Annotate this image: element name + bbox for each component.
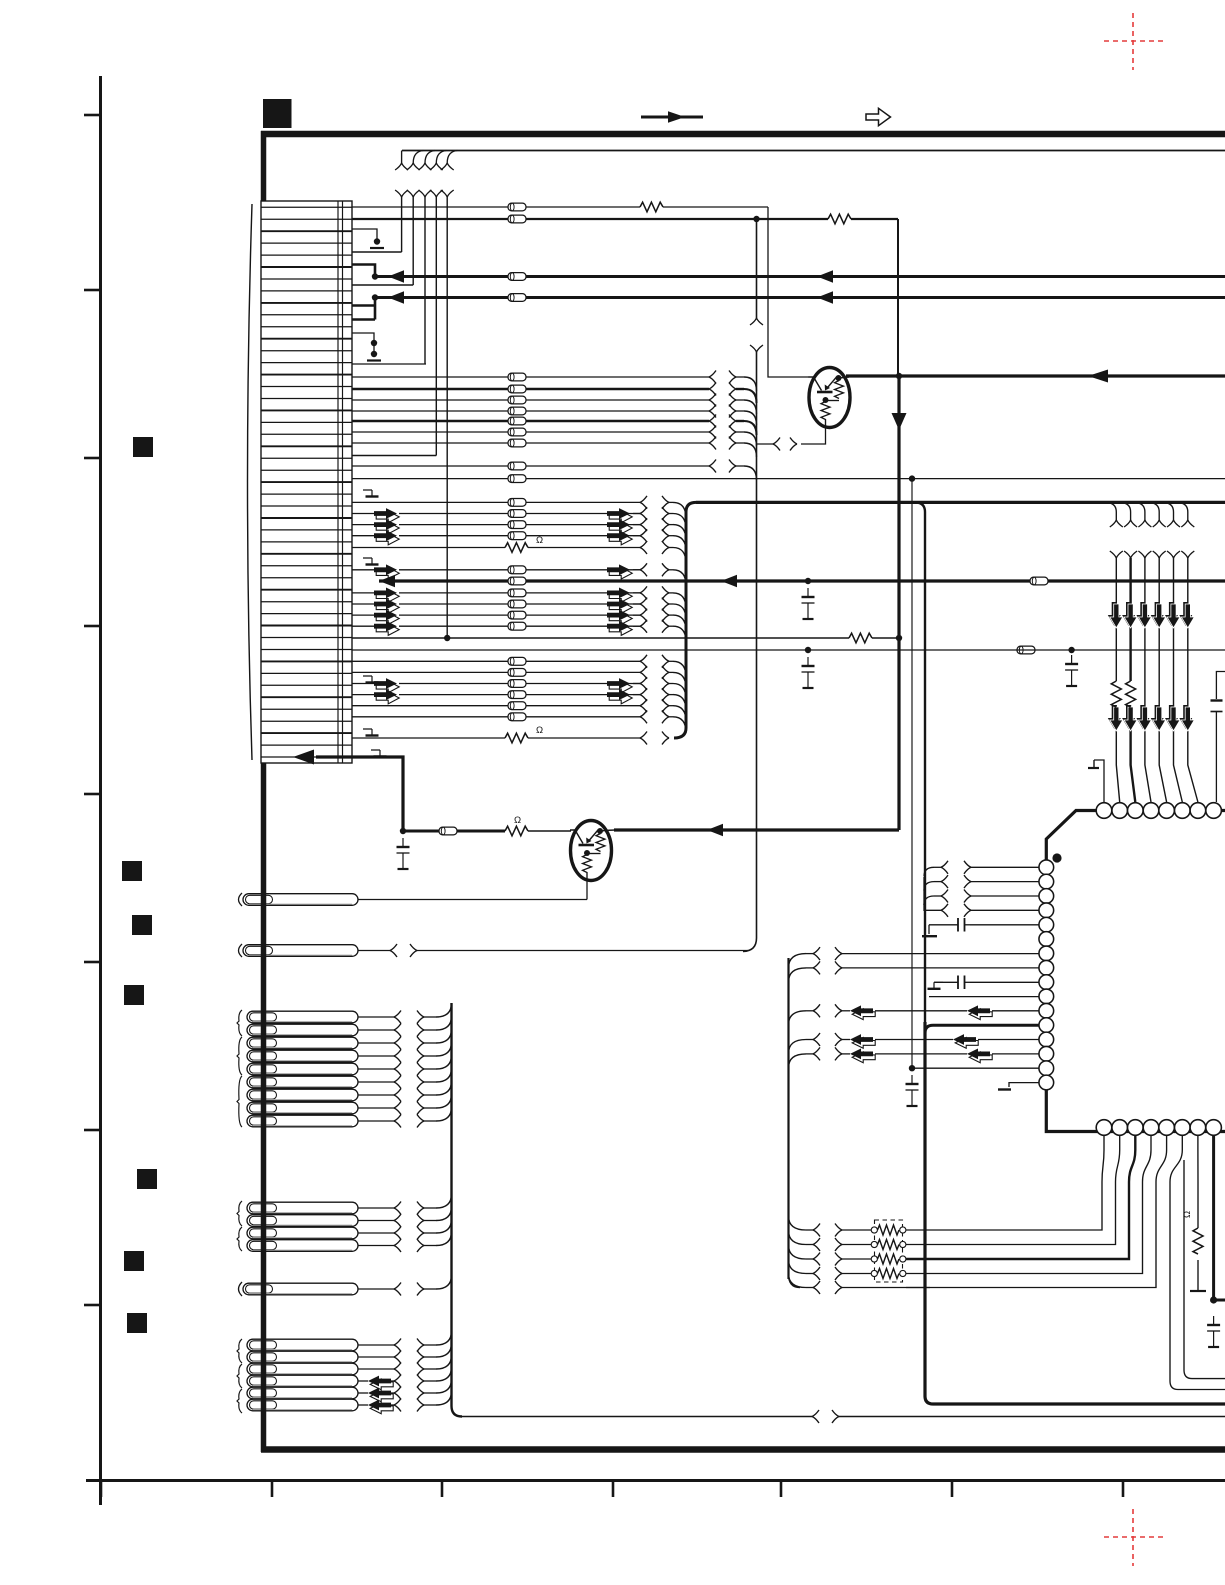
ground G20 [922,935,937,937]
wire row CLK long [352,637,849,639]
connector P3 pin pill 9 [247,1115,358,1127]
bus wire U101 top 2 [1131,558,1136,802]
bus wire U101 top 5 [1174,558,1183,802]
bus break fork P3-4 [394,1050,401,1063]
bus break fork B11 [640,655,647,668]
left margin marker square 3 [132,915,152,935]
wire U101 Lpin3 [934,895,941,897]
bus wire stair 2 [352,197,413,285]
wire U101 bottom pin1 [906,1135,1104,1230]
wire ctrl row B3 [352,524,374,526]
inner horizontal rail top [402,150,1225,152]
ruler left tick 4 [84,625,100,628]
ferrite bead A5 [508,417,526,425]
ferrite bead B1 [508,499,526,507]
flow arrow B3 left [374,519,399,534]
ruler left vertical line [99,76,102,1505]
connector group P3 brace c [237,1076,242,1127]
capacitor C23 [906,1075,919,1106]
ferrite bead B13 [508,680,526,688]
ferrite bead B2 [508,510,526,518]
bus break fork Lpin14 [813,1047,820,1060]
left margin marker square 5 [137,1169,157,1189]
ruler left tick 5 [84,793,100,796]
connector CN101 divider lines [338,201,343,763]
wire P3-4 [358,1055,394,1057]
bus vertical v912 [911,479,913,1070]
wire P6-1 [358,1344,394,1346]
wire Q1 emitter bottom [801,427,826,444]
bus break fork B3 [640,518,647,531]
connector CN101 pin rows [261,207,352,757]
ferrite bead DATA [508,577,526,585]
connector P5 (single pill) [243,1283,358,1295]
wire data row A3 [352,399,508,401]
wire bus row MUTE2 thick [375,296,1225,299]
ferrite bead A3 [508,396,526,404]
bus break fork B16 [640,710,647,723]
wire ctrl row B9 [352,614,374,616]
ferrite bead VREF right [1017,646,1035,654]
junction y376 [896,373,902,379]
wire RN1 row 2 left [842,1244,871,1246]
junction DATA cap [805,578,811,584]
wire P3-8 [358,1107,394,1109]
bus wire U101 top 1 [1116,558,1119,802]
wire data row A5 [352,420,508,422]
bus break fork B12 [640,666,647,679]
wire P3-7 [358,1094,394,1096]
ruler bottom horizontal line [86,1479,1225,1482]
flow arrow B10 right [607,621,632,636]
flow arrow P6-5 [368,1388,393,1402]
svg-text:Ω: Ω [536,725,543,736]
wire P3-9 [358,1120,394,1122]
connector P6 pin pill 4 [247,1375,358,1387]
junction VREF cap [805,647,811,653]
flow arrow B13 right [607,678,632,693]
left margin marker square 4 [124,985,144,1005]
bus break fork A4 [709,405,716,418]
wire bus row DATA thick [379,579,1225,582]
bus break fork P6-3 [394,1363,401,1376]
arrowhead MUTE2 mid [817,291,833,304]
ferrite bead A6 [508,428,526,436]
ruler left tick 8 [84,1304,100,1307]
wire U101 Lpin2 [934,881,941,883]
wire P5 [358,1288,394,1290]
wire ctrl row B14 [352,694,374,696]
connector P6 pin pill 2 [247,1351,358,1363]
schematic border left [261,131,267,1452]
ferrite bead B14 [508,691,526,699]
ground sym G1 [363,490,379,497]
ground sym G3 [363,676,379,683]
junction pin8 [1210,1296,1217,1303]
bus break fork B8 [640,598,647,611]
resistor R12 [828,214,851,224]
wire U101 Lpin15 [912,1067,1039,1069]
wire U101 Lpin13 [842,1039,850,1041]
transistor Q1 [809,368,851,428]
flow arrow B2 left [374,508,399,523]
flow arrow B4 right [607,530,632,545]
connector P4 pin pill 2 [247,1215,358,1227]
connector P4 brace b [237,1227,242,1251]
node stub pair [352,333,426,364]
svg-text:Ω: Ω [536,535,543,546]
bus break fork B9 [640,609,647,622]
wire row SCL thick [352,218,508,220]
connector P6 brace b [237,1364,242,1388]
ferrite bead L5 [439,827,457,835]
wire row SDA [352,206,508,208]
bus break fork U1-8 [813,961,820,974]
wire Q1 to v756 [757,443,774,445]
wire P4-2 [358,1220,394,1222]
bus break fork B4 [640,529,647,542]
bus break fork P6-2 [394,1351,401,1364]
connector P6 brace a [237,1339,242,1363]
bus break fork P3-5 [394,1063,401,1076]
left margin marker square 1 [133,437,153,457]
connector P2 bracket [239,944,243,957]
flow arrow B4 left [374,530,399,545]
IC U101 top pin circles [1096,803,1221,819]
resistor R22 [505,826,528,836]
wire P6-4 [358,1380,368,1382]
ferrite bead A2 [508,385,526,393]
wire P6-3 [358,1368,394,1370]
wire P3-3 [358,1042,394,1044]
registration cross bottom-right [1104,1536,1163,1538]
bus entry curl end forks [395,163,408,170]
bus break y1416 [812,1410,819,1423]
bus wire stair 4 [352,197,436,456]
resistor R11 [640,202,663,212]
flow arrow B10 left [374,621,399,636]
wire thick y376 from right [846,374,1225,377]
connector P6 pin pill 3 [247,1363,358,1375]
ruler bottom tick 2 [271,1481,274,1497]
bold down arrows row1 [1108,602,1123,628]
flow arrow B7 left [374,588,399,603]
wire RN1 row 3 left [842,1258,871,1260]
IC U101 bottom pin circles [1096,1120,1221,1136]
bus break on v756 [750,318,763,325]
ruler left tick 1 [84,114,100,117]
ferrite bead DATA right [1030,577,1048,585]
bus break fork A1 [709,371,716,384]
flow arrow B6 left [374,564,399,579]
wire P1 to Q2 [358,899,587,901]
capacitor C12 [1065,655,1078,686]
wire data row A6 [352,431,508,433]
wire P2 segment [358,950,390,952]
schematic border top [261,131,1225,138]
connector CN101 pin rows bold [261,231,352,733]
bus break fork B2 [640,507,647,520]
bus break fork B6 [640,563,647,576]
bus break fork RN1-3 [813,1253,820,1266]
connector P6 pin pill 6 [247,1399,358,1411]
bus curl end forks [1110,520,1123,527]
ferrite bead B6 [508,566,526,574]
bus wire stair 5 [446,197,448,638]
wire RN1 row 4 left [842,1273,871,1275]
left margin marker square 6 [124,1251,144,1271]
bus vertical v756 [743,222,757,952]
bus break fork B1 [640,496,647,509]
bus break fork P6-5 [394,1387,401,1400]
arrowhead y376 [1088,370,1108,383]
bus break fork P4-1 [394,1202,401,1215]
connector P4 pin pill 3 [247,1227,358,1239]
connector P6 pin pill 1 [247,1339,358,1351]
connector P2 (single pill) [243,945,358,957]
connector P4 brace a [237,1201,242,1226]
arrowhead y830 [707,824,723,837]
wire data row A2 [352,388,508,390]
wire ctrl row B1 [352,501,508,503]
net tie bar B [370,247,384,249]
hollow arrow Lpin13 a [850,1034,875,1048]
ground sym G2 [363,558,379,565]
bus break fork B7 [640,586,647,599]
bus thick horizontal y502 [696,501,1225,504]
wire P3-2 [358,1029,394,1031]
connector P6 pin pill 5 [247,1387,358,1399]
connector P4 pin pill 4 [247,1240,358,1252]
wire ctrl row B16 [352,716,508,718]
bus break fork P3-8 [394,1102,401,1115]
wire Q2 emitter [586,880,588,900]
wire bus row MUTE1 thick [375,275,1225,278]
wire U101 bottom pin6b [1184,1160,1225,1379]
wire U101 bottom pin2 [906,1135,1120,1245]
connector group P3 brace b [237,1037,242,1075]
wire thick to P-line [316,757,403,831]
connector P3 pin pill 7 [247,1089,358,1101]
wire P4-1 [358,1207,394,1209]
wire V drop to Q1 base [768,207,809,377]
capacitor C14 [397,838,410,869]
ferrite bead A7 [508,439,526,447]
bus wire U101 top 4 [1159,558,1166,802]
connector CN101 left bracket [248,204,253,760]
ground G22 [928,982,944,989]
wire U101 Lpin11 [842,1010,850,1012]
left margin marker square 2 [122,861,142,881]
wire stub row3 [352,229,377,240]
ruler bottom tick 3 [441,1481,444,1497]
wire U101 Lpin12 thick [925,1025,1039,1033]
junction stair wire 5 [444,635,450,641]
IC U101 left pin circles [1039,860,1054,1090]
bus corner to v927 [915,502,925,1022]
flow arrow B6 right [607,564,632,579]
bus break fork P6-6 [394,1399,401,1412]
wire ctrl row B8 [352,603,374,605]
bus break fork U1-7 [813,947,820,960]
bus break fork Lpin11 [813,1004,820,1017]
bus break fork P3-6 [394,1076,401,1089]
bus vertical v898 thick [897,374,900,830]
bus break fork B14 [640,688,647,701]
bus break fork B15 [640,699,647,712]
bus forks U101 top [1110,551,1123,558]
connector CN101 body [261,201,352,763]
connector P1 bracket [239,893,243,906]
capacitor C13 [802,657,815,688]
wire P6-5 [358,1392,368,1394]
ruler bottom tick 5 [780,1481,783,1497]
bus break fork A6 [709,426,716,439]
RN1 resistor 4 [871,1270,877,1276]
bus break fork P2 [390,944,397,957]
wire U101 bottom pin6 [1170,1135,1225,1390]
ground sym G4 [363,729,379,736]
svg-text:Ω: Ω [514,815,521,826]
transistor Q2 [570,821,612,881]
wire data row A4 [352,410,508,412]
hollow arrow Lpin11 b [967,1005,992,1019]
connector P3 pin pill 6 [247,1076,358,1088]
bus break fork U1-2 [941,875,948,888]
bus break fork P3-2 [394,1024,401,1037]
svg-text:Ω: Ω [1182,1211,1193,1218]
wire Q1 collector top [838,377,849,378]
bus break fork U1-4 [941,904,948,917]
arrowhead MUTE1 mid [817,270,833,283]
hollow arrow Lpin13 b [953,1034,978,1048]
ruler bottom tick 1 [100,1481,103,1497]
wire ctrl row B6 [352,569,374,571]
bus break fork RN1-4 [813,1267,820,1280]
ferrite bead B8 [508,600,526,608]
flow arrow B14 right [607,689,632,704]
RN1 resistor 1 [871,1227,877,1233]
flow arrow B2 right [607,508,632,523]
arrowhead DATA mid [721,575,737,588]
signal flow arrow hollow right [866,108,891,125]
wire P-line right [403,830,439,833]
wire ctrl row B13 [352,683,374,685]
resistor R32 [1126,681,1136,707]
capacitor C31 [1211,699,1223,701]
wire edge entry C31 [1216,672,1225,700]
ruler bottom tick 7 [1122,1481,1125,1497]
wire long row A9 [352,478,910,480]
hollow arrow Lpin14 b [967,1049,992,1063]
ferrite bead B9 [508,611,526,619]
flow arrow B7 right [607,588,632,603]
hollow arrow Lpin11 a [850,1005,875,1019]
IC U101 outline [1046,811,1225,1132]
schematic border bottom [261,1446,1225,1453]
IC U101 orientation dot [1052,853,1061,862]
wire RN1 row 5 left [842,1287,930,1289]
connector P5 bracket [239,1282,243,1296]
bus break fork P4-2 [394,1214,401,1227]
wire ctrl row B11 [352,660,508,662]
wire U101 bottom pin5 [906,1135,1167,1288]
bus wire stair 3 [424,197,426,364]
registration cross top-right [1104,40,1163,42]
bus break fork Q1 [790,438,797,451]
ferrite bead L1 [508,203,526,211]
ground U101 pin1 top [1094,760,1104,802]
arrowhead DATA left [379,575,395,588]
bus thick v927 lower [925,1022,1225,1404]
bus break fork P6-1 [394,1339,401,1352]
wire P3-6 [358,1081,394,1083]
flow arrow B8 left [374,599,399,614]
arrowhead P-line [293,750,314,765]
bus break fork B5 [640,541,647,554]
connector P3 pin pill 4 [247,1050,358,1062]
ferrite bead A4 [508,407,526,415]
ferrite bead A9 [508,475,526,483]
wire P6-6 [358,1404,368,1406]
bus break fork U1-3 [941,890,948,903]
wire ctrl row B12 [352,671,508,673]
hollow arrow Lpin14 a [850,1049,875,1063]
bus vertical v789 [787,958,789,1279]
ground sym G5 [371,750,387,757]
flow arrow B3 right [607,519,632,534]
resistor R31 [1111,681,1121,707]
ferrite bead B4 [508,532,526,540]
ruler bottom tick 6 [951,1481,954,1497]
flow arrow P6-4 [368,1376,393,1390]
left margin marker square 7 [127,1313,147,1333]
bus vertical v452 [452,1003,463,1417]
bus break fork P3-7 [394,1089,401,1102]
wire P3-5 [358,1068,394,1070]
bus break fork P4-4 [394,1239,401,1252]
arrowhead v898 down [892,413,907,430]
flow arrow B14 left [374,689,399,704]
wire U101 Lpin7 [842,953,1039,955]
bracket stub MUTE1 [352,265,375,277]
connector P3 pin pill 8 [247,1102,358,1114]
capacitor C22 [958,976,965,990]
wire U101 Lpin10 [929,996,1039,998]
wire ctrl row B10 [352,625,374,627]
capacitor C21 [958,918,965,932]
wire U101 Lpin5 cap [970,924,1039,926]
wire P4-3 [358,1232,394,1234]
ferrite bead L3 [508,273,526,281]
ferrite bead L2 [508,215,526,223]
wire R33 bottom [1197,1260,1199,1290]
capacitor C32 [1207,1316,1220,1347]
bus break fork P3-9 [394,1115,401,1128]
bus wire U101 top 6 [1188,558,1198,802]
bus entry curls from top rail [402,151,458,164]
net tie bar C [367,359,381,361]
bus break fork P4-3 [394,1227,401,1240]
ruler left tick 2 [84,289,100,292]
connector P3 pin pill 2 [247,1024,358,1036]
bus break fork U1-1 [941,861,948,874]
arrowhead MUTE1 left [388,270,404,283]
bus break fork A7 [709,437,716,450]
junction P-line cap [400,828,406,834]
ferrite bead B16 [508,713,526,721]
wire U101 Lpin14 [842,1053,850,1055]
